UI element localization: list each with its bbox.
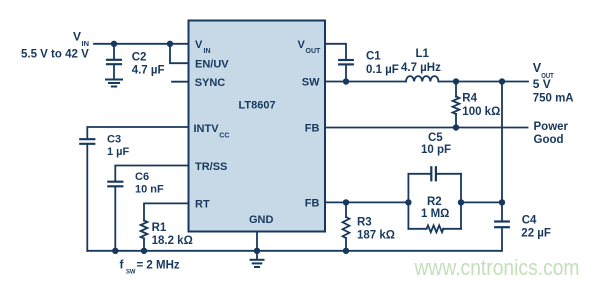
resistor R4 [453,82,460,128]
label C3 value [107,134,130,158]
svg-text:C6: C6 [135,171,149,183]
wire SW output line [325,81,406,83]
svg-text:R2: R2 [427,196,442,208]
resistor R2 with bottom branch wires [408,225,461,232]
svg-text:C3: C3 [107,134,121,146]
svg-text:CC: CC [219,132,229,139]
svg-text:= 2 MHz: = 2 MHz [137,259,180,271]
label L1 value [401,48,441,74]
wire GND pin [256,232,258,259]
svg-text:SW: SW [302,77,320,89]
node rail-GND [254,248,260,254]
inductor L1 [406,76,438,81]
svg-text:R1: R1 [152,222,167,234]
svg-text:100 kΩ: 100 kΩ [462,106,500,118]
node loop left [405,199,411,205]
svg-text:EN/UV: EN/UV [195,58,229,70]
node FB-R3 [343,199,349,205]
svg-text:4.7 µF: 4.7 µF [132,65,165,77]
svg-text:FB: FB [305,197,320,209]
svg-text:V: V [195,39,203,51]
wire VIN input [94,43,189,45]
svg-text:187 kΩ: 187 kΩ [357,230,395,242]
svg-text:OUT: OUT [306,48,322,55]
svg-text:GND: GND [249,214,274,226]
capacitor C4 [495,222,509,251]
node loop right [458,199,464,205]
wire SYNC stub [172,81,189,83]
svg-text:Good: Good [534,134,564,146]
svg-text:RT: RT [195,199,210,211]
label R4 value [462,93,500,118]
resistor R1 [141,221,148,251]
label R1 value [152,222,193,247]
svg-text:5.5 V to 42 V: 5.5 V to 42 V [21,49,89,61]
capacitor C1 [339,60,353,82]
svg-text:5 V: 5 V [533,77,551,91]
op-amp U1 LT8607 body [189,21,326,232]
pin label VIN [195,39,211,55]
svg-text:22 µF: 22 µF [521,227,551,239]
wire EN/UV branch [170,44,189,63]
svg-text:LT8607: LT8607 [239,99,276,111]
node VOUT-R4 [453,78,459,84]
svg-text:V: V [73,30,81,44]
svg-text:1 MΩ: 1 MΩ [421,208,449,220]
capacitor C5 with top branch wires [408,167,461,180]
svg-text:750 mA: 750 mA [533,93,574,105]
label C1 value [366,51,399,77]
ground below GND pin [251,260,264,267]
label C5 value [421,132,451,156]
svg-text:f: f [120,257,125,271]
svg-text:IN: IN [204,48,211,55]
svg-text:R4: R4 [462,93,477,105]
wire R2/C5 loop left vertical [407,174,409,229]
svg-text:C5: C5 [428,132,443,144]
node VOUT-C4 branch [499,78,505,84]
capacitor C3 [80,139,94,251]
svg-text:www.cntronics.com: www.cntronics.com [414,255,580,280]
svg-text:V: V [298,39,306,51]
node rail-R1 [141,248,147,254]
label Power Good [534,121,569,146]
svg-text:R3: R3 [357,217,372,229]
svg-text:FB: FB [305,123,320,135]
svg-text:SYNC: SYNC [195,77,226,89]
svg-text:C1: C1 [366,51,381,63]
pin label INTVCC [194,123,230,139]
wire VOUT pin to C1 [325,44,346,59]
wire bottom ground rail [87,250,501,252]
label C6 value [135,171,164,196]
capacitor C6 [108,182,122,251]
svg-text:Power: Power [534,121,569,133]
label C4 value [521,215,551,240]
svg-text:IN: IN [82,39,90,48]
svg-text:4.7 µHz: 4.7 µHz [401,62,441,74]
node C4 branch junction [499,199,505,205]
ground below C2 [106,80,122,87]
svg-text:C4: C4 [522,215,537,227]
wire Power Good line [325,127,528,129]
label C2 value [132,51,165,76]
wire R2/C5 loop right vertical [460,174,462,229]
wire VOUT down to C4 [501,82,503,221]
wire RT [144,203,189,220]
svg-text:0.1 µF: 0.1 µF [366,64,399,76]
node rail-C6 [112,248,118,254]
svg-text:1 µF: 1 µF [107,146,130,158]
node SW-C1 [343,78,349,84]
label fsw [120,257,180,275]
svg-text:L1: L1 [416,48,430,60]
svg-text:10 pF: 10 pF [421,144,451,156]
node VIN junction at EN branch [167,41,173,47]
label VOUT terminal [533,61,574,105]
svg-text:SW: SW [126,269,136,276]
resistor R3 [343,202,350,250]
wire FB lower line [325,201,408,203]
svg-text:TR/SS: TR/SS [195,161,227,173]
svg-text:INTV: INTV [194,123,220,135]
label VIN [21,30,89,61]
svg-text:C2: C2 [132,51,147,63]
wire INTVCC [87,127,188,139]
label R2 value [421,196,449,220]
wire loop to C4 branch [461,201,502,203]
pin label VOUT [298,39,322,55]
node PG-R4 [453,124,459,130]
svg-text:10 nF: 10 nF [135,184,164,196]
wire L1 to VOUT terminal [439,81,529,83]
label R3 value [357,217,395,242]
wire TR/SS [115,166,188,182]
node rail-R3 [343,248,349,254]
capacitor C2 [107,44,121,79]
svg-text:18.2 kΩ: 18.2 kΩ [152,235,193,247]
node VIN junction at C2 [111,41,117,47]
